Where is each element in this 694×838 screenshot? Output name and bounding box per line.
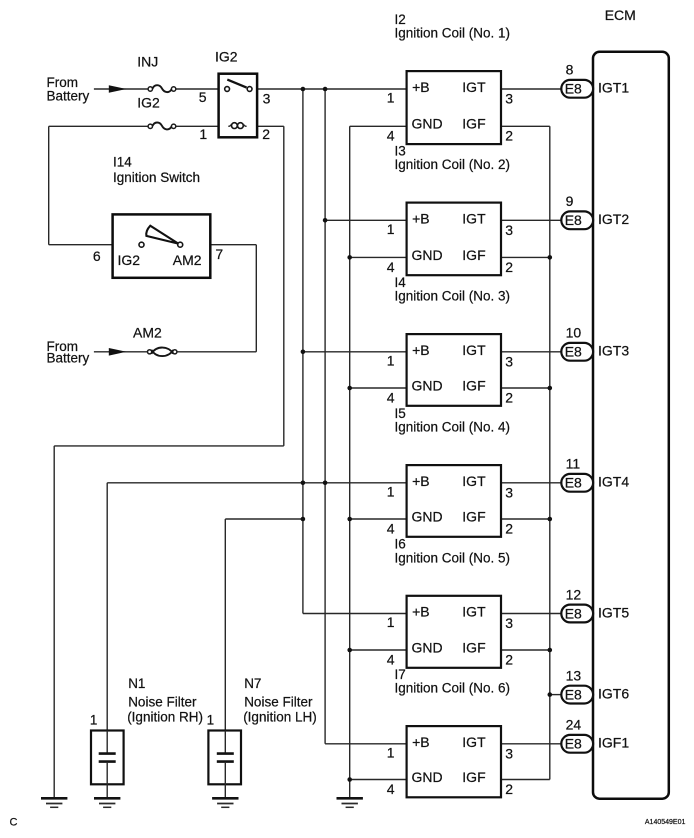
svg-text:10: 10 (566, 325, 582, 341)
svg-text:E8: E8 (565, 687, 582, 703)
wire to ignition switch pin 6 (49, 244, 113, 246)
relay coil winding (228, 124, 231, 126)
connector E8 pin 24 (IGF1) (561, 735, 593, 753)
ground relay coil return (41, 797, 67, 800)
svg-text:1: 1 (387, 353, 395, 369)
wire row2 left to IG2 fuse (49, 125, 148, 127)
svg-text:4: 4 (387, 389, 395, 405)
svg-text:13: 13 (566, 667, 582, 683)
svg-text:IGT4: IGT4 (598, 474, 629, 490)
svg-text:GND: GND (412, 769, 443, 785)
wire row2 down to switch pin 6 (48, 126, 50, 244)
svg-text:IG2: IG2 (215, 48, 238, 64)
relay IG2 box (219, 74, 258, 138)
connector E8 pin 13 (IGT6) (561, 686, 593, 704)
svg-text:3: 3 (505, 222, 513, 238)
svg-text:GND: GND (412, 639, 443, 655)
svg-text:12: 12 (566, 586, 582, 602)
wire battery to AM2 fuse (94, 351, 148, 353)
svg-text:IGF: IGF (462, 116, 485, 132)
capacitor N7 (224, 731, 226, 754)
svg-text:4: 4 (387, 520, 395, 536)
svg-text:Ignition Coil (No. 4): Ignition Coil (No. 4) (395, 420, 511, 435)
svg-text:+B: +B (412, 604, 430, 620)
junction V3 coil3 gnd (347, 386, 352, 391)
wire switch pin 7 right (210, 244, 256, 246)
svg-text:E8: E8 (565, 736, 582, 752)
svg-text:IGT1: IGT1 (598, 80, 629, 96)
from-battery arrow top (109, 85, 127, 93)
noise filter N1 box (91, 731, 124, 785)
wire coil 4 IGF (501, 518, 550, 520)
svg-text:3: 3 (505, 90, 513, 106)
svg-text:3: 3 (505, 353, 513, 369)
+B bus V1 (302, 89, 304, 614)
fuse INJ (148, 87, 152, 91)
svg-text:IGT6: IGT6 (598, 686, 629, 702)
svg-text:1: 1 (387, 90, 395, 106)
wire IGF bus to coil 6 IGF (501, 779, 550, 781)
wire pin 7 down to AM2 fuse (255, 245, 257, 352)
wire relay pin2 vertical drop (283, 126, 285, 446)
wire V2 to coil 2 +B (325, 219, 407, 221)
junction V1 coil4 (301, 481, 306, 486)
wire battery to INJ fuse (94, 88, 148, 90)
wire coil 3 GND (350, 387, 407, 389)
ignition coil I6 box (No. 5) (407, 596, 501, 668)
svg-text:Ignition Coil (No. 6): Ignition Coil (No. 6) (395, 681, 511, 696)
svg-text:Noise Filter: Noise Filter (128, 694, 197, 709)
svg-text:Ignition Coil (No. 2): Ignition Coil (No. 2) (395, 157, 511, 172)
connector E8 pin 10 (IGT3) (561, 343, 593, 361)
svg-text:+B: +B (412, 342, 430, 358)
svg-text:IGF: IGF (462, 769, 485, 785)
svg-text:GND: GND (412, 116, 443, 132)
ignition coil I5 box (No. 4) (407, 465, 501, 537)
svg-text:N1: N1 (128, 676, 145, 691)
wire coil 4 +B / N1 tap (107, 482, 406, 484)
svg-text:4: 4 (387, 128, 395, 144)
wire AM2 fuse to pin7 riser (177, 351, 256, 353)
wire IGF bus to E8 pin 13 (550, 694, 562, 696)
svg-text:+B: +B (412, 79, 430, 95)
switch contact AM2 (178, 242, 183, 247)
wire N1 riser (106, 483, 108, 731)
relay contact pin3 (247, 87, 252, 92)
svg-text:1: 1 (90, 713, 98, 728)
svg-text:4: 4 (387, 651, 395, 667)
junction V2 coil2 (323, 218, 328, 223)
svg-text:IGT: IGT (462, 79, 486, 95)
svg-text:3: 3 (505, 484, 513, 500)
wire IG2 fuse to relay pin 1 (176, 125, 219, 127)
wire coil 4 GND (350, 518, 407, 520)
wire N7 riser (224, 519, 226, 731)
wire N7 tap to V1 (225, 518, 303, 520)
svg-text:IG2: IG2 (137, 95, 160, 111)
svg-text:E8: E8 (565, 605, 582, 621)
svg-text:Battery: Battery (47, 88, 90, 103)
IGF bus V4 (549, 126, 551, 779)
junction V1 coil3 (301, 350, 306, 355)
svg-text:IG2: IG2 (118, 252, 141, 268)
svg-text:IGF: IGF (462, 639, 485, 655)
wire coil 1 IGF to IGF bus (501, 125, 550, 127)
switch lever (146, 226, 178, 244)
ground bus V3 (349, 126, 351, 798)
relay contact pin5 (225, 87, 230, 92)
svg-text:3: 3 (505, 745, 513, 761)
svg-text:1: 1 (387, 221, 395, 237)
svg-text:N7: N7 (244, 676, 261, 691)
wire coil 1 GND to ground bus (350, 125, 407, 127)
svg-text:IGT: IGT (462, 342, 486, 358)
fusible link AM2 (148, 350, 152, 354)
svg-text:E8: E8 (565, 212, 582, 228)
svg-text:1: 1 (387, 745, 395, 761)
svg-text:2: 2 (505, 651, 513, 667)
junction V2 coil4 (323, 481, 328, 486)
ground coil GND bus (337, 797, 363, 800)
svg-text:+B: +B (412, 734, 430, 750)
svg-text:+B: +B (412, 210, 430, 226)
wire coil 2 IGF (501, 256, 550, 258)
svg-text:3: 3 (263, 91, 271, 107)
svg-text:IGT: IGT (462, 473, 486, 489)
junction V1 N7 (301, 517, 306, 522)
svg-text:6: 6 (93, 248, 101, 264)
svg-text:Ignition Switch: Ignition Switch (113, 170, 200, 185)
connector E8 pin 12 (IGT5) (561, 605, 593, 623)
junction V3 coil5 gnd (347, 648, 352, 653)
ECM box (593, 52, 669, 799)
junction V3 coil6 gnd (347, 777, 352, 782)
svg-text:E8: E8 (565, 344, 582, 360)
svg-text:Ignition Coil (No. 5): Ignition Coil (No. 5) (395, 550, 511, 565)
svg-text:4: 4 (387, 781, 395, 797)
svg-text:7: 7 (215, 246, 223, 262)
svg-text:C: C (10, 817, 18, 829)
svg-text:2: 2 (505, 259, 513, 275)
svg-text:IGT: IGT (462, 604, 486, 620)
svg-text:GND: GND (412, 508, 443, 524)
svg-text:2: 2 (505, 781, 513, 797)
switch contact IG2 (139, 242, 144, 247)
svg-text:I14: I14 (113, 154, 132, 169)
junction V1 top (301, 87, 306, 92)
svg-text:IGF: IGF (462, 377, 485, 393)
svg-text:11: 11 (566, 456, 581, 472)
svg-text:ECM: ECM (605, 7, 636, 23)
junction V2 top (323, 87, 328, 92)
svg-text:Battery: Battery (47, 351, 90, 366)
wire coil 5 IGT to E8 pin 12 (501, 613, 561, 615)
ignition coil I3 box (No. 2) (407, 203, 501, 276)
svg-text:1: 1 (199, 126, 207, 142)
ignition coil I4 box (No. 3) (407, 334, 501, 406)
svg-text:2: 2 (262, 126, 270, 142)
svg-text:2: 2 (505, 520, 513, 536)
junction V4 coil4 igf (548, 517, 553, 522)
svg-text:IGT: IGT (462, 210, 486, 226)
wire coil 5 IGF (501, 649, 550, 651)
relay switch blade (227, 80, 246, 88)
junction V3 coil4 gnd (347, 517, 352, 522)
svg-text:GND: GND (412, 377, 443, 393)
junction V4 coil3 igf (548, 386, 553, 391)
svg-text:IGT2: IGT2 (598, 211, 629, 227)
from-battery arrow AM2 (109, 348, 127, 356)
capacitor N1 (106, 731, 108, 754)
svg-text:IGF1: IGF1 (598, 735, 629, 751)
ignition switch box (113, 214, 211, 277)
svg-text:5: 5 (199, 89, 207, 105)
svg-text:(Ignition RH): (Ignition RH) (127, 709, 203, 724)
svg-text:2: 2 (505, 389, 513, 405)
wire coil 1 IGT to E8 pin 8 (501, 88, 561, 90)
noise filter N7 box (208, 731, 241, 785)
junction V3 coil2 gnd (347, 255, 352, 260)
connector E8 pin 8 (IGT1) (561, 80, 593, 98)
wire coil 6 GND (350, 779, 407, 781)
wire V1 to coil 3 +B (303, 351, 407, 353)
ignition coil I7 box (No. 6) (407, 726, 501, 797)
svg-text:E8: E8 (565, 475, 582, 491)
svg-text:AM2: AM2 (173, 252, 202, 268)
junction V4 coil5 igf (548, 648, 553, 653)
fuse IG2 (148, 124, 152, 128)
wire left vertical to ground (53, 446, 55, 798)
ground N7 (212, 797, 238, 800)
wire relay pin 2 right (257, 125, 284, 127)
wire coil 2 GND (350, 256, 407, 258)
wire coil 6 IGT to E8 pin 24 (501, 743, 561, 745)
svg-text:E8: E8 (565, 81, 582, 97)
ground N1 (94, 797, 120, 800)
svg-text:AM2: AM2 (133, 325, 162, 341)
connector E8 pin 11 (IGT4) (561, 474, 593, 492)
wire relay pin 3 to coil 1 +B (257, 88, 407, 90)
+B bus V2 (324, 89, 326, 744)
svg-text:IGF: IGF (462, 508, 485, 524)
wire coil 3 IGT to E8 pin 10 (501, 351, 561, 353)
svg-text:2: 2 (505, 128, 513, 144)
ignition coil I2 box (No. 1) (407, 71, 501, 144)
svg-text:1: 1 (387, 484, 395, 500)
svg-text:9: 9 (566, 193, 574, 209)
svg-text:Ignition Coil (No. 3): Ignition Coil (No. 3) (395, 289, 511, 304)
svg-text:IGT5: IGT5 (598, 604, 629, 620)
svg-text:4: 4 (387, 259, 395, 275)
svg-text:+B: +B (412, 473, 430, 489)
wire V1 to coil 5 +B (303, 613, 407, 615)
svg-text:INJ: INJ (137, 54, 158, 70)
svg-text:1: 1 (207, 713, 215, 728)
svg-text:IGT: IGT (462, 734, 486, 750)
svg-text:Noise Filter: Noise Filter (244, 694, 313, 709)
wire coil 5 GND (350, 649, 407, 651)
wire coil 2 IGT to E8 pin 9 (501, 219, 561, 221)
svg-text:IGT3: IGT3 (598, 343, 629, 359)
svg-text:1: 1 (387, 614, 395, 630)
svg-text:Ignition Coil (No. 1): Ignition Coil (No. 1) (395, 26, 511, 41)
svg-text:GND: GND (412, 247, 443, 263)
junction V4 coil2 igf (548, 255, 553, 260)
svg-text:8: 8 (566, 62, 574, 78)
svg-text:(Ignition LH): (Ignition LH) (243, 709, 317, 724)
wire V2 to coil 6 +B (325, 743, 407, 745)
svg-text:24: 24 (566, 717, 582, 733)
connector E8 pin 9 (IGT2) (561, 211, 593, 229)
junction V4 E8-13 (548, 692, 553, 697)
svg-text:3: 3 (505, 615, 513, 631)
svg-text:IGF: IGF (462, 247, 485, 263)
svg-text:A140549E01: A140549E01 (645, 819, 686, 826)
wire coil 3 IGF (501, 387, 550, 389)
wire pin2 horizontal to left (54, 445, 284, 447)
wire coil 4 IGT to E8 pin 11 (501, 482, 561, 484)
wire INJ fuse to relay pin 5 (176, 88, 219, 90)
